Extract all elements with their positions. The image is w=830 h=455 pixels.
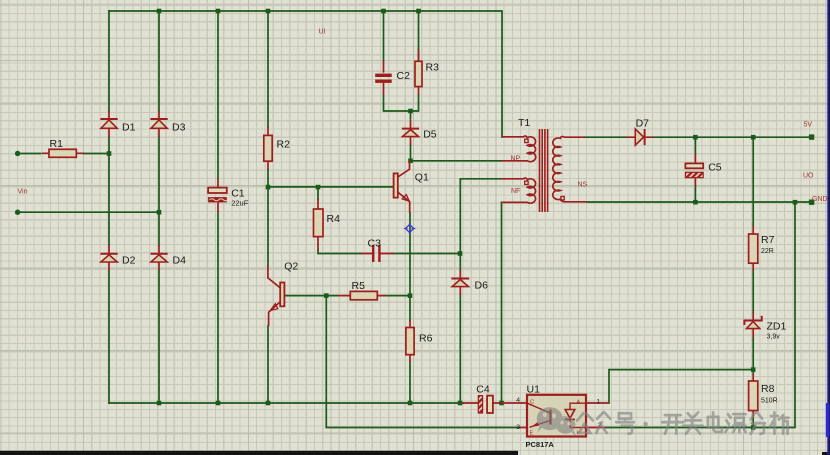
wire NF bottom drop to C4 node: [501, 202, 503, 403]
junction bus1 / D6 bottom: [458, 401, 463, 406]
watermark text 公众号·开关电源分析: [577, 412, 788, 433]
wire C1 column: [217, 11, 219, 403]
diode D3: [150, 111, 185, 136]
junction 5V rail / R7: [751, 135, 756, 140]
wire NS top to D7: [585, 136, 627, 138]
junction C4 right / NF drop / U1 pin4: [499, 401, 504, 406]
svg-text:E: E: [530, 431, 534, 437]
wire secondary bottom bus: [606, 202, 795, 428]
svg-text:1: 1: [597, 399, 601, 406]
resistor R6: [406, 321, 433, 363]
svg-text:C: C: [530, 400, 534, 406]
svg-text:C5: C5: [708, 162, 722, 174]
wire Vin+ to R1 and R1 to node: [19, 153, 109, 155]
svg-text:D3: D3: [172, 122, 186, 134]
svg-text:5V: 5V: [804, 122, 813, 129]
svg-text:D6: D6: [475, 280, 489, 292]
svg-text:R1: R1: [50, 138, 64, 150]
junction bus1 / R6 bottom: [408, 401, 413, 406]
wire D3 column: [158, 11, 160, 403]
wire Q1 collector node to NP bottom: [411, 160, 502, 162]
wire C2 column: [384, 11, 419, 111]
resistor R7 22R: [749, 226, 775, 271]
junction GND rail / right drop: [793, 200, 798, 205]
svg-text:R2: R2: [277, 139, 291, 151]
svg-text:3: 3: [516, 424, 520, 431]
svg-text:D5: D5: [423, 129, 437, 141]
svg-text:C4: C4: [476, 384, 490, 396]
pin 3 lead: [520, 427, 527, 429]
svg-text:R8: R8: [761, 383, 775, 395]
junction bus1 / Q2 emitter: [266, 401, 271, 406]
resistor R3: [415, 50, 439, 96]
glyph 关: [683, 412, 702, 433]
svg-text:R3: R3: [426, 62, 440, 74]
winding NS: [553, 136, 587, 201]
terminal Vin-: [15, 210, 20, 215]
svg-text:D1: D1: [122, 122, 136, 134]
junction R4 top / Q1 base: [316, 185, 321, 190]
capacitor C2: [375, 61, 410, 96]
wire NF top to D6 column: [460, 179, 501, 271]
wire Vin- row: [19, 211, 159, 213]
svg-text:Q1: Q1: [415, 172, 429, 184]
junction Q1 collector / D5 / NP: [408, 159, 413, 164]
winding NF: [502, 178, 536, 203]
svg-text:ZD1: ZD1: [767, 321, 787, 333]
junction top bus / C2 column: [381, 9, 386, 14]
junction C2-R3 / D5 top: [408, 109, 413, 114]
svg-text:NP: NP: [511, 155, 521, 162]
wire D6 bottom: [459, 295, 461, 403]
transformer T1: [502, 129, 588, 212]
capacitor C1 22uF electrolytic: [208, 179, 249, 212]
svg-text:R7: R7: [761, 234, 775, 246]
diode D7: [627, 117, 654, 145]
pin 4 lead: [502, 402, 528, 404]
junction R1 / D1 column: [107, 151, 112, 156]
diode D1: [100, 111, 135, 136]
junction top bus / R2 column: [266, 9, 271, 14]
glyph 开: [662, 415, 683, 434]
junction R2 bottom / Q1 base: [266, 185, 271, 190]
glyph 电: [708, 412, 722, 432]
junction bus2 / R8 bottom: [751, 425, 756, 430]
svg-text:GND: GND: [812, 196, 828, 203]
svg-text:3,9v: 3,9v: [767, 334, 781, 341]
wire top bus: [109, 11, 502, 137]
optocoupler U1 PC817A: [502, 384, 610, 450]
pin 2 lead: [586, 427, 606, 429]
junction top bus / R3 column: [416, 9, 421, 14]
junction Q2 base / opto drop: [324, 293, 329, 298]
junction C3 right / D6 column: [458, 251, 463, 256]
svg-text:22R: 22R: [761, 248, 774, 255]
resistor R1: [42, 138, 84, 157]
svg-text:R4: R4: [327, 213, 341, 225]
svg-text:4: 4: [516, 397, 520, 404]
svg-text:A: A: [577, 400, 581, 406]
svg-text:PC817A: PC817A: [526, 440, 555, 449]
terminal Vin+: [15, 151, 20, 156]
wire R7 column: [752, 137, 754, 312]
wire 5V rail: [653, 136, 812, 138]
wire feedback to opto pin1: [609, 370, 753, 403]
terminal 5V: [809, 134, 814, 139]
junction top bus / C1 column: [216, 9, 221, 14]
svg-text:C2: C2: [397, 70, 411, 82]
junction ZD1 bottom / R8 top / feedback: [751, 367, 756, 372]
glyph 众: [596, 412, 610, 432]
pin 1 lead: [586, 402, 609, 404]
wire R4 stubs: [318, 187, 361, 253]
capacitor C5 electrolytic: [685, 154, 721, 187]
wire Q1 base row: [268, 186, 394, 188]
glyph 源: [725, 414, 745, 432]
glyph 析: [770, 412, 788, 433]
wire R5 row: [285, 295, 410, 297]
capacitor C4: [463, 384, 501, 413]
separator dot: [643, 422, 648, 427]
junction Vin- / D3 column: [157, 210, 162, 215]
svg-text:D2: D2: [122, 255, 136, 267]
polarity dots: [525, 139, 528, 142]
svg-text:T1: T1: [518, 117, 530, 129]
transistor Q2 PNP: [268, 261, 298, 327]
svg-text:R6: R6: [419, 333, 433, 345]
capacitor C3: [361, 238, 394, 263]
wire C5 stubs: [694, 137, 696, 202]
svg-text:UI: UI: [319, 29, 326, 36]
glyph 公: [577, 413, 593, 433]
junction Q1 emitter / R5 / R6: [408, 293, 413, 298]
wire D5 bottom to Q1 collector node: [410, 145, 412, 161]
origin marker (blue): [404, 223, 415, 234]
wire GND rail: [587, 201, 812, 203]
body: [527, 395, 586, 437]
terminal GND: [809, 200, 814, 205]
resistor R2: [264, 127, 290, 169]
svg-text:NS: NS: [578, 182, 588, 189]
wire bottom primary bus: [109, 402, 463, 404]
transistor Q1 NPN: [394, 161, 429, 213]
zener ZD1 3,9v: [744, 312, 786, 340]
internal LED: [570, 403, 586, 427]
wire R5 node drop to opto bus: [326, 296, 520, 428]
wire Q1 emitter column: [409, 213, 411, 404]
resistor R4: [314, 199, 341, 250]
junction bus1 / C1 column: [216, 401, 221, 406]
svg-text:U1: U1: [527, 384, 541, 396]
right scrollbar strip: [827, 0, 830, 455]
svg-text:UO: UO: [803, 173, 814, 180]
wire Q2 emitter column: [267, 326, 269, 403]
svg-text:Q2: Q2: [284, 261, 298, 273]
watermark wechat logo: [537, 407, 577, 436]
junction 5V rail / C5: [693, 135, 698, 140]
wire R8 bottom: [752, 418, 754, 428]
diode D4: [150, 245, 186, 270]
junction GND rail / C5 bottom: [693, 200, 698, 205]
junction top bus / D3 column: [157, 9, 162, 14]
svg-text:D7: D7: [636, 117, 650, 129]
resistor R8 510R: [749, 374, 778, 418]
core: [540, 129, 548, 212]
svg-text:22uF: 22uF: [231, 199, 249, 208]
wire ZD1 bottom node: [752, 338, 754, 374]
svg-text:C3: C3: [368, 238, 382, 250]
svg-text:NF: NF: [511, 188, 520, 195]
wire D1 column: [108, 11, 110, 403]
glyph 号: [616, 413, 633, 433]
wire R2 column: [267, 11, 269, 266]
diode D6: [451, 270, 488, 295]
svg-text:D4: D4: [173, 255, 187, 267]
junction bus1 / D4 column: [157, 401, 162, 406]
winding NP: [502, 136, 536, 162]
svg-text:Vin: Vin: [18, 189, 28, 196]
bottom taskbar strip: [0, 451, 518, 455]
glyph 分: [751, 412, 765, 433]
resistor R5: [338, 280, 386, 300]
svg-text:510R: 510R: [761, 398, 778, 405]
wire R3 column top: [418, 11, 420, 50]
diode D5: [402, 111, 437, 145]
diode D2: [100, 245, 135, 270]
wire C3 right to D6 column: [394, 253, 461, 255]
svg-text:R5: R5: [352, 280, 366, 292]
internal phototransistor: [549, 410, 551, 425]
